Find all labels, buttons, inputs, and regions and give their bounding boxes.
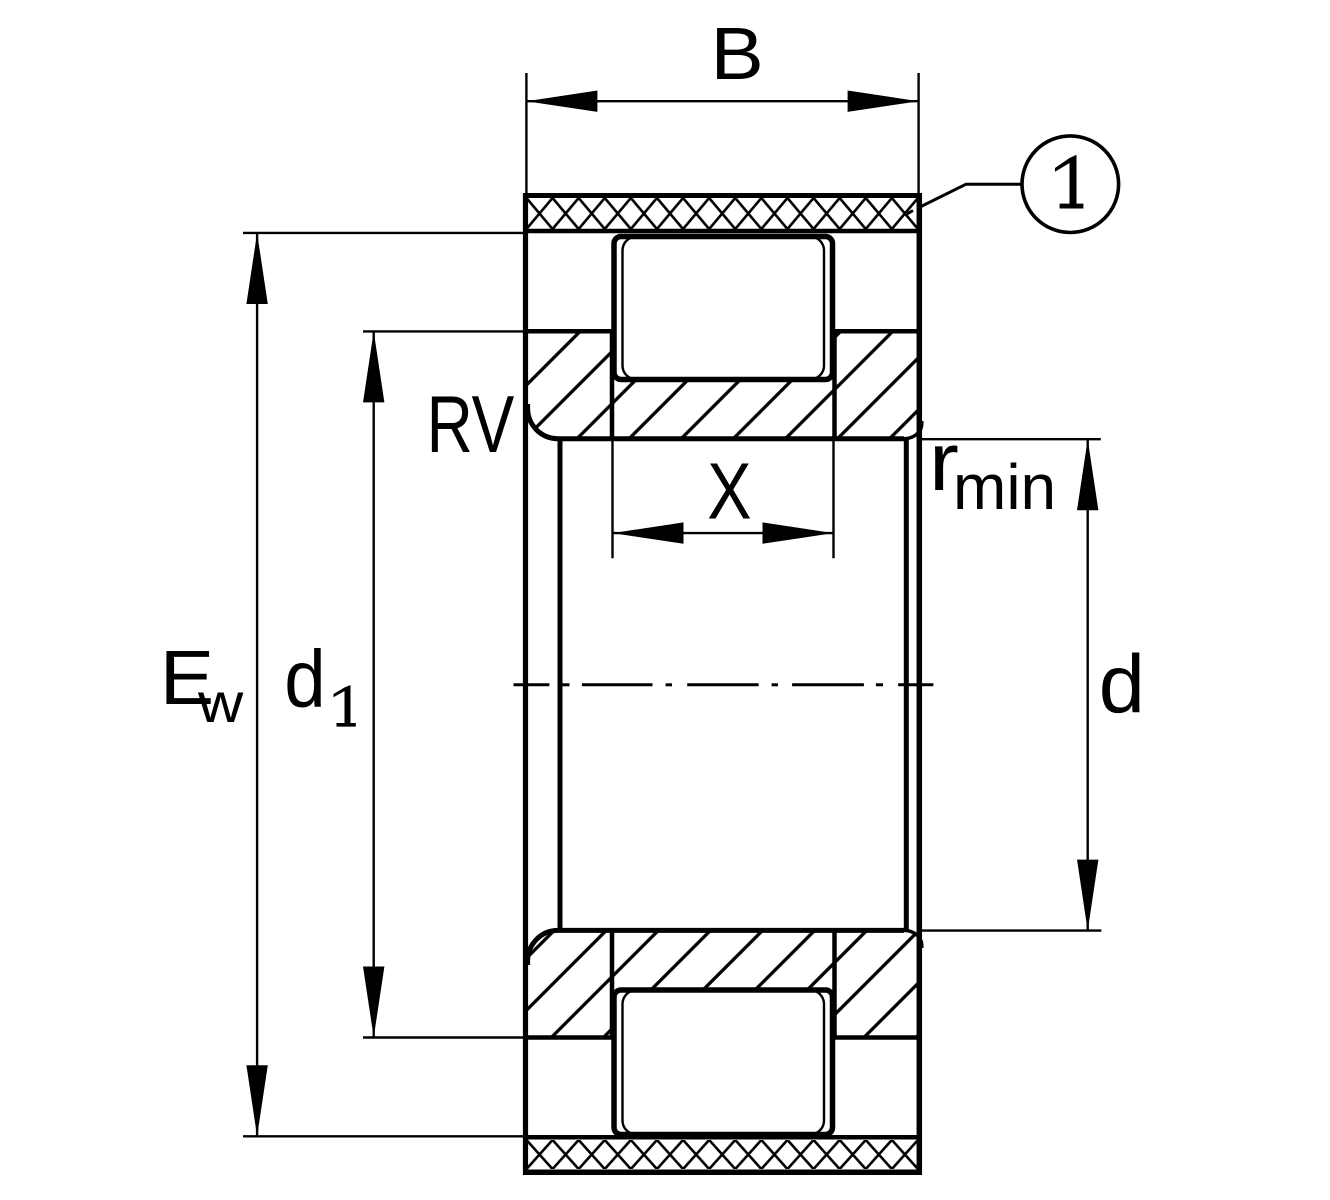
svg-text:RV: RV: [427, 380, 515, 470]
svg-text:d: d: [1099, 638, 1145, 731]
svg-text:B: B: [711, 13, 764, 96]
svg-text:w: w: [197, 671, 244, 734]
svg-text:min: min: [953, 451, 1056, 523]
svg-text:X: X: [707, 446, 751, 536]
svg-text:d: d: [284, 634, 325, 724]
